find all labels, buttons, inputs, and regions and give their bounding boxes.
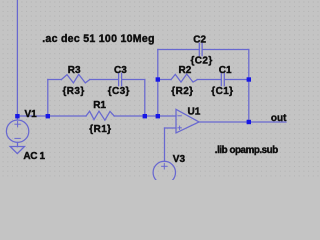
resistor R1 [86,111,114,120]
voltage source V3 circle [153,161,175,183]
op-amp minus symbol [178,115,181,117]
node B right [156,114,160,118]
op-amp plus symbol [178,127,181,129]
svg-text:{C2}: {C2} [191,56,213,67]
svg-text:.lib opamp.sub: .lib opamp.sub [215,145,278,156]
svg-text:V3: V3 [173,154,186,165]
ground symbol [10,147,24,154]
wire: right vertical feedback rail [248,50,250,123]
wire: right vertical of R3C3 loop [144,80,146,117]
node V1 top [15,114,19,118]
wire: C2 row right segment [202,49,249,51]
node output [247,120,251,124]
capacitor C2 [198,43,200,55]
wire: loop top row node A to R3 [48,79,62,81]
wire: output row from opamp apex to out label [199,121,286,123]
svg-text:{C1}: {C1} [211,86,233,97]
V1 minus sign [15,137,20,139]
svg-text:{C3}: {C3} [108,86,130,97]
junction nodes [15,77,251,124]
wire: R2 row node to R2 [158,79,171,81]
wire: vertical from R2 row up to C2 row [157,50,159,80]
V1 plus sign [15,123,20,125]
node A [46,114,50,118]
wire: vertical down to V3 [164,128,166,162]
resistor R3 [61,74,89,83]
svg-text:C2: C2 [193,34,206,45]
wire: opamp plus input horizontal [165,127,177,129]
svg-text:C1: C1 [219,65,232,76]
wire stub V1 bottom to ground [17,142,19,146]
wire: left vertical of R3C3 loop [47,80,49,117]
wire: vertical from node B up to R2 row [157,80,159,117]
svg-text:{R1}: {R1} [89,124,111,135]
node R2 row left [156,77,160,81]
node B left [143,114,147,118]
svg-text:C3: C3 [114,65,127,76]
svg-text:out: out [271,113,287,124]
svg-text:AC 1: AC 1 [23,151,45,162]
wire: C2 row left segment [158,49,200,51]
svg-text:R1: R1 [93,100,106,111]
node C1 right [247,77,251,81]
wire: main row V1 to R1 [17,115,86,117]
V3 plus sign [162,165,167,167]
svg-text:R3: R3 [68,65,81,76]
wire: R3 to C3 [90,79,119,81]
wire: C3 to right corner [122,79,145,81]
svg-text:{R3}: {R3} [63,86,85,97]
wire: left vertical rail from top edge to V1 [16,0,18,120]
capacitor C1 [220,73,222,85]
wire: C1 to right node [224,79,249,81]
resistor R2 [171,74,197,82]
svg-text:.ac dec 51 100 10Meg: .ac dec 51 100 10Meg [42,33,155,45]
svg-text:{R2}: {R2} [171,86,193,97]
op-amp U1 [176,109,199,133]
wire: main row R1 to opamp minus input [114,115,176,117]
capacitor C3 [118,73,120,85]
svg-text:U1: U1 [188,106,201,117]
wire: R2 to C1 [197,79,221,81]
svg-text:V1: V1 [25,109,38,120]
voltage source V1 circle [6,120,28,142]
